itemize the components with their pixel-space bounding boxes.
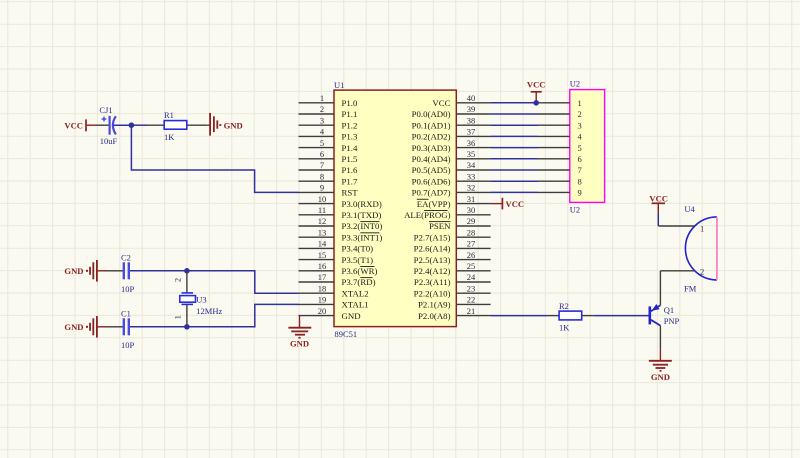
svg-text:GND: GND: [342, 311, 361, 321]
wire C1 to XTAL1 node: [130, 326, 187, 328]
U2 pin 3: [538, 120, 582, 130]
wire R2 to Q1 base: [582, 315, 594, 317]
power port VCC (above U2): [527, 79, 546, 102]
svg-text:1K: 1K: [164, 132, 175, 142]
svg-text:22: 22: [467, 295, 476, 305]
svg-text:8: 8: [578, 176, 582, 186]
svg-text:2: 2: [320, 104, 324, 114]
svg-text:29: 29: [467, 216, 476, 226]
U2 pin 7: [538, 165, 582, 175]
svg-text:P0.2(AD2): P0.2(AD2): [412, 132, 451, 142]
wire U1 pin 39 to U2 pin 2: [491, 113, 538, 115]
U1 pin 4 (P1.3): [299, 127, 358, 142]
svg-text:P3.2(INT0): P3.2(INT0): [342, 221, 383, 231]
svg-text:XTAL2: XTAL2: [342, 288, 369, 298]
U1 pin 40 (VCC): [432, 93, 490, 108]
svg-text:P1.5: P1.5: [342, 154, 358, 164]
svg-text:P0.7(AD7): P0.7(AD7): [412, 188, 451, 198]
U1 pin 16 (P3.6(WR)): [299, 261, 378, 276]
svg-text:33: 33: [467, 171, 476, 181]
svg-text:89C51: 89C51: [335, 329, 358, 339]
speaker U4: [685, 217, 717, 280]
U4 pin 1: [658, 224, 704, 234]
svg-text:CJ1: CJ1: [99, 105, 112, 115]
svg-text:GND: GND: [651, 372, 670, 382]
U4 pin 2: [660, 266, 704, 276]
svg-text:P1.0: P1.0: [342, 98, 358, 108]
U1 pin 6 (P1.5): [299, 149, 358, 164]
svg-text:7: 7: [578, 165, 582, 175]
U1 pin 33 (P0.6(AD6)): [412, 171, 491, 186]
power port VCC (left): [64, 119, 97, 131]
svg-text:GND: GND: [64, 266, 83, 276]
wire R1 to GND: [187, 124, 208, 126]
svg-text:10P: 10P: [121, 284, 135, 294]
svg-text:P2.7(A15): P2.7(A15): [414, 232, 451, 242]
U1 pin 5 (P1.4): [299, 138, 358, 153]
svg-text:37: 37: [467, 127, 476, 137]
svg-text:P3.1(TXD): P3.1(TXD): [342, 210, 382, 220]
U1 pin 36 (P0.3(AD3)): [412, 138, 491, 153]
svg-text:R1: R1: [164, 110, 174, 120]
svg-text:40: 40: [467, 93, 476, 103]
power port VCC (U1 pin 31): [491, 198, 525, 210]
U1 pin 10 (P3.0(RXD)): [299, 194, 382, 209]
U1 pin 31 (EA(VPP)): [417, 194, 491, 209]
power ground GND (left of C1): [64, 316, 107, 338]
svg-text:P1.7: P1.7: [342, 176, 358, 186]
wire Q1 collector to GND: [659, 326, 661, 350]
wire U1 pin 21 to R2: [491, 315, 547, 317]
svg-text:18: 18: [318, 283, 327, 293]
junction node XTAL2: [184, 268, 190, 274]
U1 pin 9 (RST): [299, 183, 359, 198]
svg-text:XTAL1: XTAL1: [342, 300, 369, 310]
svg-text:8: 8: [320, 171, 324, 181]
resistor R1: [164, 121, 187, 130]
svg-text:26: 26: [467, 250, 476, 260]
wire speaker pin 2 to Q1 emitter: [659, 271, 661, 305]
U1 pin 25 (P2.4(A12)): [414, 261, 491, 276]
U1 pin 27 (P2.6(A14)): [414, 239, 491, 254]
wire U1 pin 33 to U2 pin 8: [491, 180, 538, 182]
wire VCC to CJ1: [98, 124, 110, 126]
U1 pin 1 (P1.0): [299, 93, 358, 108]
U1 pin 21 (P2.0(A8)): [418, 306, 491, 321]
svg-text:5: 5: [320, 138, 324, 148]
svg-text:1: 1: [700, 224, 704, 234]
capacitor C1: [107, 318, 129, 335]
svg-text:11: 11: [318, 205, 326, 215]
svg-text:Q1: Q1: [664, 305, 674, 315]
svg-text:2: 2: [700, 266, 704, 276]
crystal U3: [180, 271, 196, 327]
svg-text:16: 16: [318, 261, 327, 271]
U1 pin 15 (P3.5(T1)): [299, 250, 374, 265]
svg-text:P1.6: P1.6: [342, 165, 358, 175]
svg-text:R2: R2: [559, 301, 569, 311]
wire U1 pin 32 to U2 pin 9: [491, 191, 538, 193]
svg-text:9: 9: [320, 183, 324, 193]
wire U1 pin 40 (VCC) to U2 pin 1: [491, 102, 538, 104]
svg-text:9: 9: [578, 188, 582, 198]
IC U1 89C51 body: [334, 90, 456, 327]
wire U1 pin 36 to U2 pin 5: [491, 147, 538, 149]
junction node RST: [129, 122, 135, 128]
svg-text:GND: GND: [64, 322, 83, 332]
capacitor C2: [107, 262, 129, 279]
U1 pin 8 (P1.7): [299, 171, 358, 186]
svg-text:P3.3(INT1): P3.3(INT1): [342, 232, 383, 242]
svg-text:1: 1: [320, 93, 324, 103]
svg-text:P2.6(A14): P2.6(A14): [414, 244, 451, 254]
resistor R2: [559, 311, 582, 320]
U2 pin 8: [538, 176, 582, 186]
connector U2 body: [570, 90, 605, 203]
U1 pin 38 (P0.1(AD1)): [412, 115, 491, 130]
U1 pin 7 (P1.6): [299, 160, 358, 175]
U2 pin 4: [538, 132, 583, 142]
U2 pin 6: [538, 154, 582, 164]
svg-text:5: 5: [578, 143, 582, 153]
ground GND (below U1 pin 20): [288, 316, 311, 349]
U1 pin 13 (P3.3(INT1)): [299, 227, 383, 242]
svg-text:P2.0(A8): P2.0(A8): [418, 311, 451, 321]
U1 pin 28 (P2.7(A15)): [414, 227, 491, 242]
svg-text:12: 12: [318, 216, 327, 226]
svg-text:U4: U4: [684, 204, 695, 214]
svg-text:32: 32: [467, 183, 476, 193]
svg-text:6: 6: [578, 154, 582, 164]
transistor Q1 (PNP): [650, 304, 661, 326]
svg-text:30: 30: [467, 205, 476, 215]
svg-text:VCC: VCC: [432, 98, 450, 108]
U2 pin 1: [538, 98, 582, 108]
svg-text:P2.4(A12): P2.4(A12): [414, 266, 451, 276]
U1 pin 24 (P2.3(A11)): [414, 272, 491, 287]
wire U1 pin 38 to U2 pin 3: [491, 124, 538, 126]
U1 pin 18 (XTAL2): [299, 283, 369, 298]
wire U1 pin 34 to U2 pin 7: [491, 169, 538, 171]
U1 pin 37 (P0.2(AD2)): [412, 127, 491, 142]
svg-text:U1: U1: [334, 80, 344, 90]
U1 pin 34 (P0.5(AD5)): [412, 160, 491, 175]
svg-text:P1.4: P1.4: [342, 143, 358, 153]
svg-text:34: 34: [467, 160, 476, 170]
svg-text:31: 31: [467, 194, 476, 204]
svg-text:10P: 10P: [121, 340, 135, 350]
svg-text:PNP: PNP: [664, 316, 680, 326]
svg-text:14: 14: [318, 239, 327, 249]
svg-text:1: 1: [578, 98, 582, 108]
svg-text:P0.6(AD6): P0.6(AD6): [412, 176, 451, 186]
svg-text:1: 1: [173, 315, 183, 319]
U1 pin 26 (P2.5(A13)): [414, 250, 491, 265]
svg-text:P1.1: P1.1: [342, 109, 358, 119]
U1 pin 11 (P3.1(TXD)): [299, 205, 382, 220]
U1 pin 14 (P3.4(T0)): [299, 239, 374, 254]
svg-text:2: 2: [173, 278, 183, 282]
svg-text:P0.5(AD5): P0.5(AD5): [412, 165, 451, 175]
svg-text:RST: RST: [342, 188, 359, 198]
svg-text:21: 21: [467, 306, 476, 316]
svg-text:P0.1(AD1): P0.1(AD1): [412, 120, 451, 130]
svg-text:VCC: VCC: [64, 120, 83, 130]
svg-text:P3.4(T0): P3.4(T0): [342, 244, 374, 254]
svg-text:P3.5(T1): P3.5(T1): [342, 255, 374, 265]
svg-text:P1.2: P1.2: [342, 120, 358, 130]
svg-text:35: 35: [467, 149, 476, 159]
U1 pin 39 (P0.0(AD0)): [412, 104, 491, 119]
junction node VCC/P0: [533, 100, 539, 106]
wire VCC to U4 pin 1: [657, 214, 659, 226]
svg-text:GND: GND: [224, 120, 243, 130]
svg-text:C1: C1: [121, 308, 131, 318]
power ground GND (left of C2): [64, 260, 107, 282]
U1 pin 35 (P0.4(AD4)): [412, 149, 491, 164]
svg-text:3: 3: [578, 120, 582, 130]
svg-text:P2.3(A11): P2.3(A11): [414, 277, 451, 287]
svg-text:2: 2: [578, 109, 582, 119]
svg-text:EA(VPP): EA(VPP): [417, 199, 451, 209]
svg-text:7: 7: [320, 160, 324, 170]
U1 pin 29 (PSEN): [429, 216, 491, 231]
svg-text:15: 15: [318, 250, 327, 260]
svg-text:P3.7(RD): P3.7(RD): [342, 277, 376, 287]
svg-text:17: 17: [318, 272, 327, 282]
svg-text:P3.6(WR): P3.6(WR): [342, 266, 378, 276]
U1 pin 12 (P3.2(INT0)): [299, 216, 383, 231]
svg-text:13: 13: [318, 227, 327, 237]
U1 pin 30 (ALE(PROG)): [404, 205, 491, 220]
U1 pin 17 (P3.7(RD)): [299, 272, 376, 287]
power ground GND (right of R1): [210, 113, 243, 136]
svg-text:28: 28: [467, 227, 476, 237]
svg-text:39: 39: [467, 104, 476, 114]
svg-text:12MHz: 12MHz: [196, 306, 222, 316]
svg-text:VCC: VCC: [649, 193, 668, 203]
svg-text:C2: C2: [121, 252, 131, 262]
svg-text:VCC: VCC: [506, 199, 525, 209]
svg-text:U3: U3: [196, 294, 206, 304]
svg-text:U2: U2: [570, 79, 580, 89]
svg-text:P0.4(AD4): P0.4(AD4): [412, 154, 451, 164]
svg-text:36: 36: [467, 138, 476, 148]
U2 pin 9: [538, 188, 582, 198]
svg-text:GND: GND: [290, 338, 309, 348]
svg-text:19: 19: [318, 295, 327, 305]
U2 pin 5: [538, 143, 582, 153]
svg-text:1K: 1K: [559, 323, 570, 333]
wire C2 to XTAL2 node: [130, 270, 187, 272]
svg-text:6: 6: [320, 149, 324, 159]
svg-text:3: 3: [320, 115, 324, 125]
power port VCC (top right): [649, 193, 668, 214]
svg-text:P0.0(AD0): P0.0(AD0): [412, 109, 451, 119]
svg-text:PSEN: PSEN: [429, 221, 451, 231]
svg-text:24: 24: [467, 272, 476, 282]
svg-text:38: 38: [467, 115, 476, 125]
junction node XTAL1: [184, 324, 190, 330]
svg-text:10: 10: [318, 194, 327, 204]
U1 pin 32 (P0.7(AD7)): [412, 183, 491, 198]
svg-text:VCC: VCC: [527, 79, 546, 89]
svg-text:P2.1(A9): P2.1(A9): [418, 300, 451, 310]
ground GND (below Q1): [649, 361, 672, 382]
wire U1 pin 35 to U2 pin 6: [491, 158, 538, 160]
wire XTAL1 node to U1 pin 19: [187, 304, 299, 326]
svg-text:P1.3: P1.3: [342, 132, 358, 142]
U1 pin 22 (P2.1(A9)): [418, 295, 491, 310]
wire XTAL2 node to U1 pin 18: [187, 271, 299, 293]
svg-text:23: 23: [467, 283, 476, 293]
svg-text:ALE(PROG): ALE(PROG): [404, 210, 451, 220]
capacitor CJ1: [102, 116, 132, 135]
svg-text:P0.3(AD3): P0.3(AD3): [412, 143, 451, 153]
U1 pin 23 (P2.2(A10)): [414, 283, 491, 298]
U2 pin 2: [538, 109, 582, 119]
U1 pin 20 (GND): [299, 306, 361, 321]
svg-text:P2.5(A13): P2.5(A13): [414, 255, 451, 265]
U1 pin 19 (XTAL1): [299, 295, 369, 310]
svg-text:U2: U2: [570, 205, 580, 215]
wire RST net to U1 pin 9: [131, 125, 298, 192]
svg-text:25: 25: [467, 261, 476, 271]
svg-text:P3.0(RXD): P3.0(RXD): [342, 199, 382, 209]
svg-text:10uF: 10uF: [100, 136, 118, 146]
svg-text:20: 20: [318, 306, 327, 316]
wire junction to R1: [131, 124, 147, 126]
svg-text:27: 27: [467, 239, 476, 249]
U1 pin 3 (P1.2): [299, 115, 358, 130]
svg-text:FM: FM: [684, 283, 697, 293]
wire U1 pin 37 to U2 pin 4: [491, 135, 538, 137]
svg-text:P2.2(A10): P2.2(A10): [414, 288, 451, 298]
U1 pin 2 (P1.1): [299, 104, 358, 119]
